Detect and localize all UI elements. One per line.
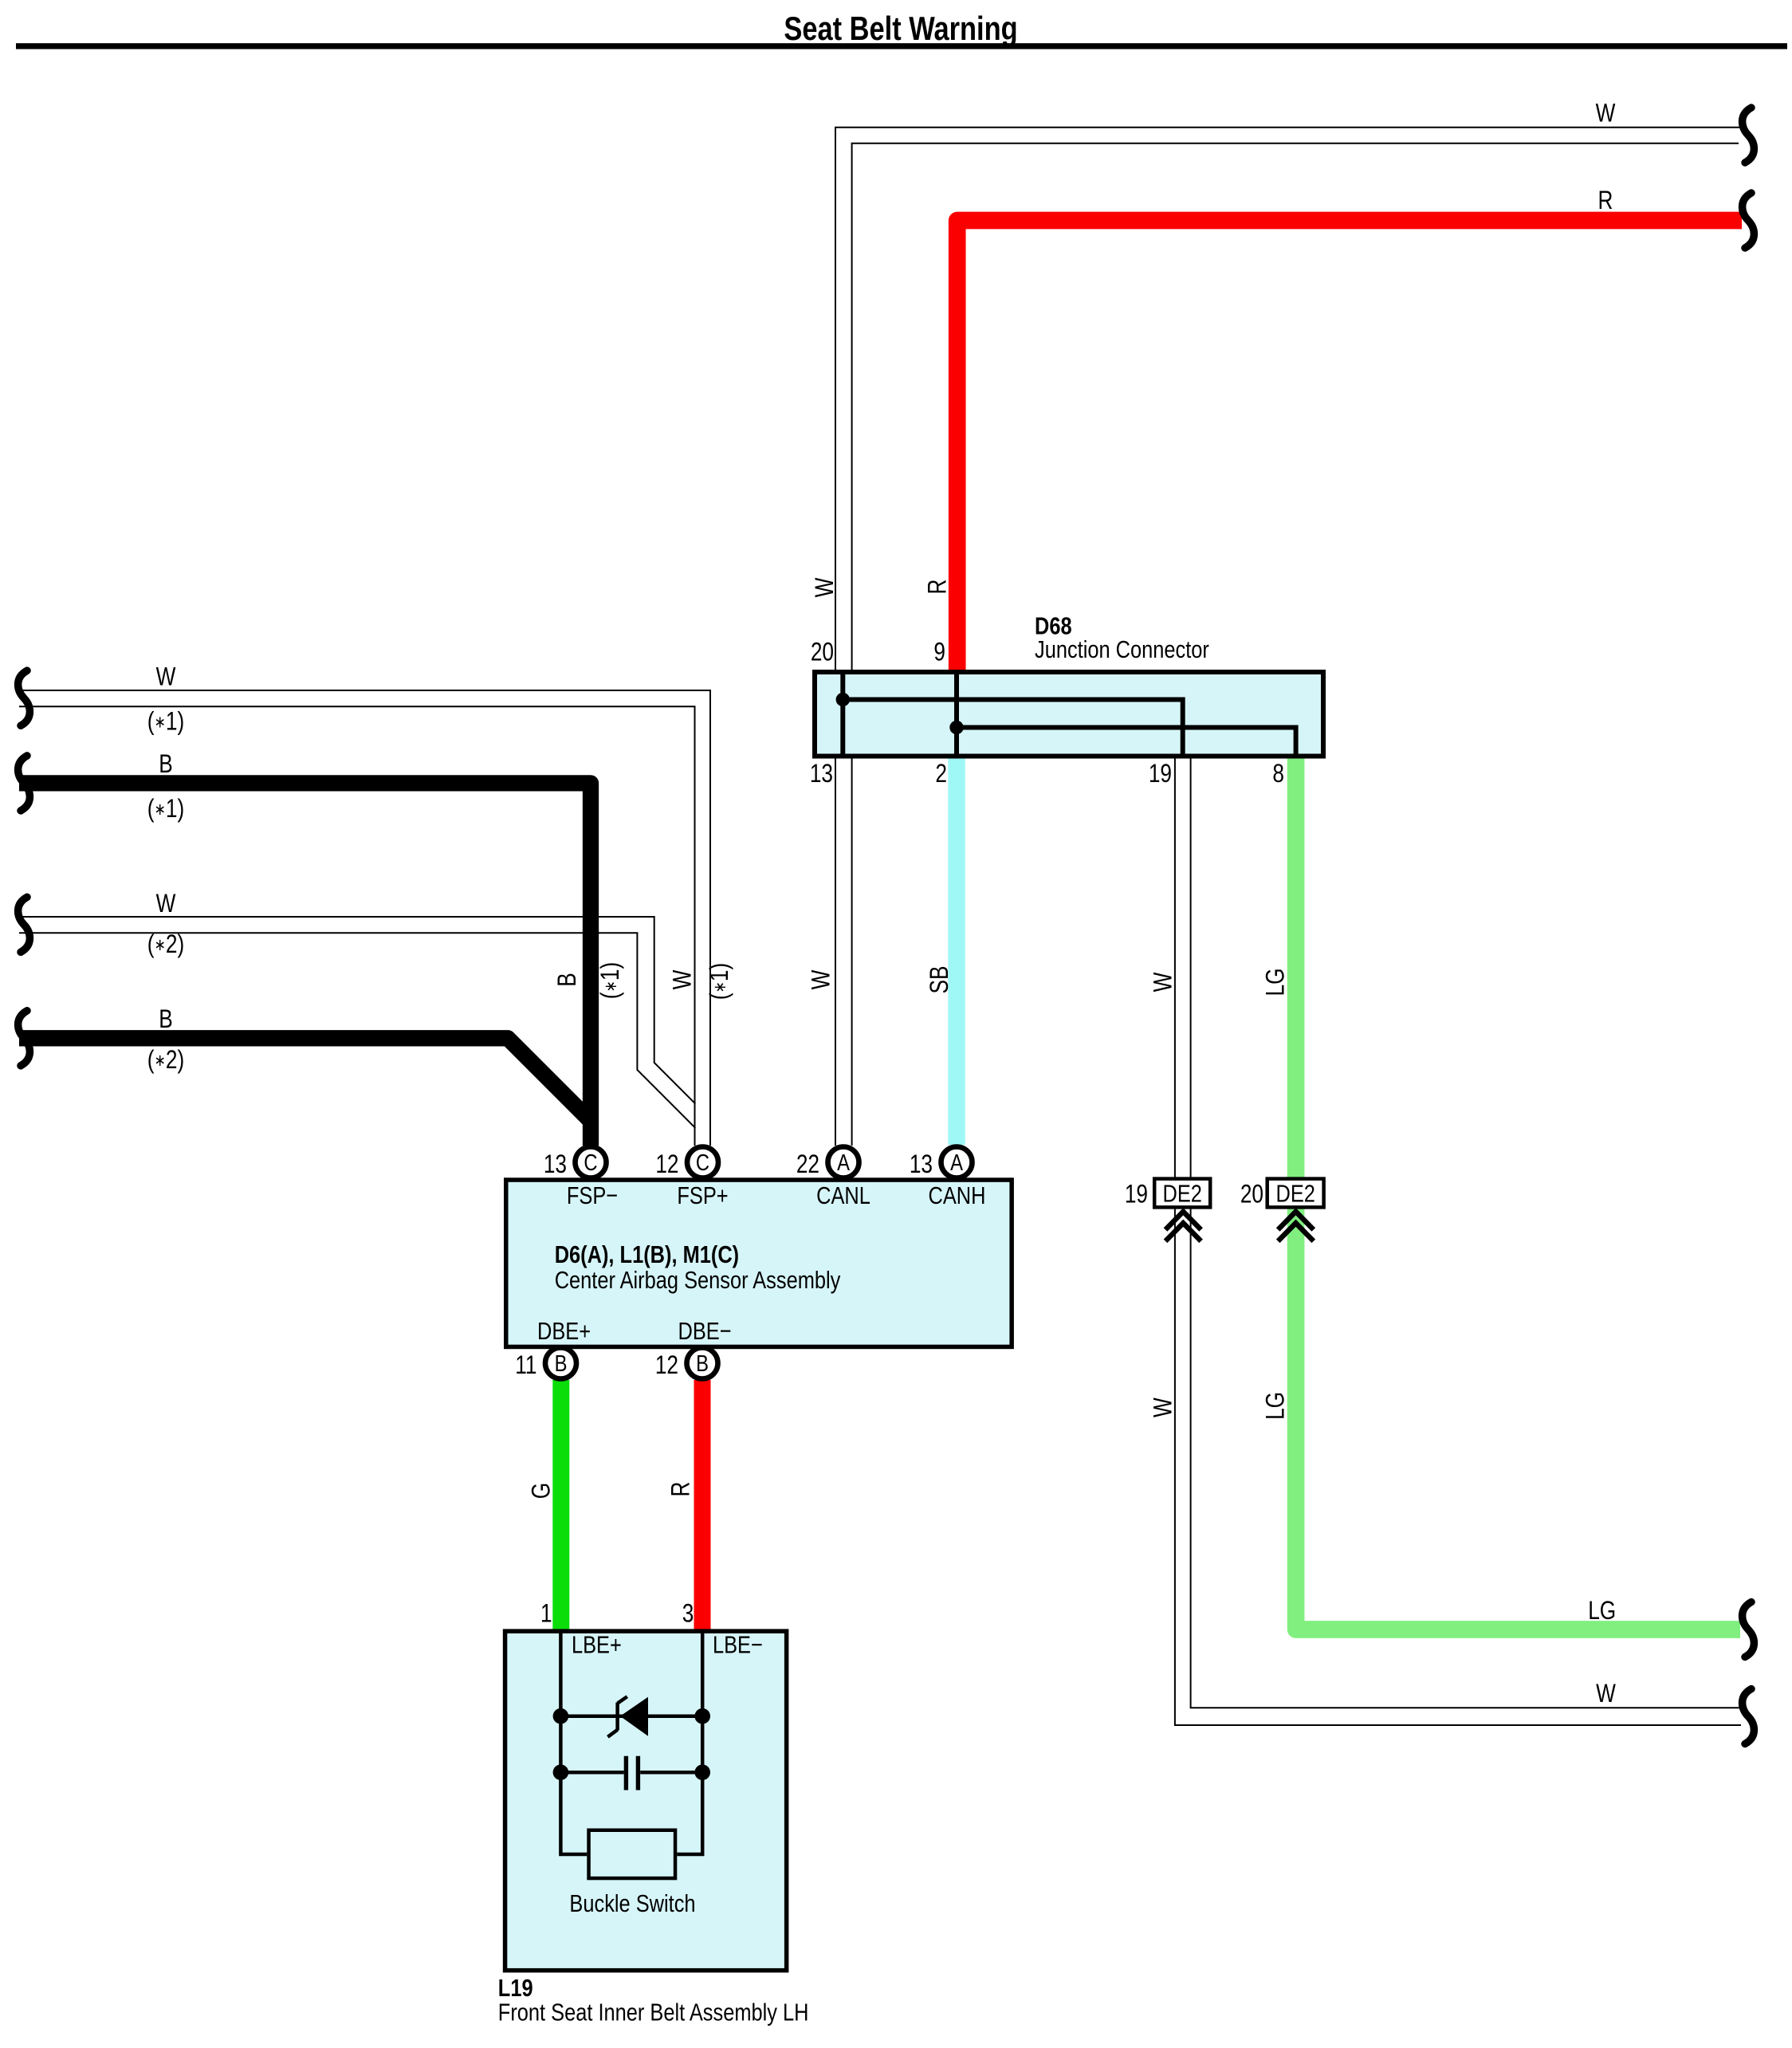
pin number 1 (L19) bbox=[540, 1600, 552, 1628]
svg-text:C: C bbox=[696, 1150, 709, 1176]
front seat inner belt assembly L19 box bbox=[505, 1631, 787, 1970]
svg-text:DBE−: DBE− bbox=[678, 1318, 731, 1346]
off-page squiggle (LG) bbox=[1743, 1602, 1755, 1657]
capacitor C1 plates bbox=[626, 1756, 638, 1791]
pin number 12 (C) bbox=[655, 1151, 678, 1179]
label (*1) under W wire bbox=[147, 708, 184, 736]
svg-text:CANH: CANH bbox=[929, 1182, 986, 1210]
svg-text:13: 13 bbox=[544, 1151, 567, 1179]
L19 internal left rail from pin 1 bbox=[560, 1631, 587, 1854]
label W (*1 wire) bbox=[156, 663, 176, 691]
pin number 13 (D68) bbox=[810, 761, 833, 788]
svg-text:13: 13 bbox=[910, 1151, 933, 1179]
pin 22(A) circle bbox=[828, 1147, 859, 1178]
svg-text:11: 11 bbox=[515, 1352, 536, 1380]
junction connector D68 box bbox=[815, 672, 1323, 757]
svg-text:FSP+: FSP+ bbox=[677, 1182, 728, 1210]
label W (*2 wire) bbox=[156, 890, 176, 918]
D68 internal bus pin 20 to 13 bbox=[840, 672, 845, 757]
svg-text:FSP−: FSP− bbox=[567, 1182, 618, 1210]
title rule bbox=[16, 43, 1787, 49]
rotated label (*1) beside vertical B wire bbox=[597, 962, 625, 999]
wire B left (*2) thick joining pin 13(C) wire bbox=[19, 1038, 593, 1123]
D68 internal bus pin 9 to 2 bbox=[954, 672, 959, 757]
label Buckle Switch bbox=[569, 1890, 695, 1918]
center airbag sensor assembly box D6(A) L1(B) M1(C) bbox=[506, 1180, 1012, 1346]
label W (top right wire) bbox=[1596, 100, 1616, 128]
wire R from pin 12(B) down to L19 pin 3 bbox=[694, 1380, 711, 1631]
svg-text:(∗2): (∗2) bbox=[147, 931, 184, 959]
svg-text:Front Seat Inner Belt Assembly: Front Seat Inner Belt Assembly LH bbox=[498, 1999, 809, 2026]
svg-text:W: W bbox=[808, 969, 835, 989]
junction dot diode left bbox=[553, 1708, 569, 1724]
rotated label SB bbox=[925, 965, 953, 993]
wire B left (*1) thick to pin 13(C) bbox=[19, 783, 591, 1146]
junction dot capacitor left bbox=[553, 1764, 569, 1780]
label CANH bbox=[929, 1182, 986, 1210]
svg-text:20: 20 bbox=[1240, 1181, 1263, 1209]
capacitor row wires bbox=[560, 1771, 702, 1775]
rotated label LG (upper) bbox=[1262, 968, 1290, 996]
svg-text:LG: LG bbox=[1588, 1598, 1616, 1625]
label Junction Connector bbox=[1035, 636, 1209, 664]
svg-text:19: 19 bbox=[1125, 1181, 1148, 1209]
svg-text:19: 19 bbox=[1149, 761, 1172, 788]
svg-text:13: 13 bbox=[810, 761, 833, 788]
pin 13(C) circle bbox=[576, 1147, 607, 1178]
rotated label W (above D68 pin 20) bbox=[812, 577, 839, 597]
label (*2) under B wire bbox=[147, 1047, 184, 1075]
svg-text:20: 20 bbox=[811, 639, 834, 666]
pin number 13 (A) bbox=[910, 1151, 933, 1179]
svg-text:W: W bbox=[156, 890, 176, 918]
rotated label B beside vertical B wire bbox=[554, 973, 582, 987]
label D6(A), L1(B), M1(C) bbox=[555, 1241, 739, 1269]
svg-text:G: G bbox=[528, 1483, 556, 1499]
rotated label G bbox=[528, 1483, 556, 1499]
svg-text:8: 8 bbox=[1272, 761, 1284, 788]
label (*2) under W wire bbox=[147, 931, 184, 959]
wire W from D68 pin 20 up and right to off-page bbox=[835, 128, 1739, 670]
pin number 12 (B) bbox=[655, 1352, 678, 1380]
pin 12(B) circle bbox=[687, 1348, 718, 1379]
label B (*1 wire) bbox=[159, 751, 173, 779]
off-page squiggle (W bottom right) bbox=[1743, 1689, 1755, 1744]
wire W from D68 pin 19 down through DE2 to off-page bottom right bbox=[1175, 759, 1741, 1726]
chevrons below DE2 pin 20 bbox=[1278, 1212, 1314, 1241]
pin number 20 (DE2) bbox=[1240, 1181, 1263, 1209]
svg-text:2: 2 bbox=[935, 761, 947, 788]
D68 junction dot on W bus bbox=[836, 693, 850, 706]
off-page squiggle (W *1) bbox=[18, 670, 30, 725]
svg-text:Center Airbag Sensor Assembly: Center Airbag Sensor Assembly bbox=[555, 1267, 841, 1295]
pin 12(C) circle bbox=[687, 1147, 718, 1178]
svg-text:12: 12 bbox=[655, 1151, 678, 1179]
wire SB from D68 pin 2 down to pin 13(A) CANH bbox=[948, 759, 965, 1146]
svg-text:D6(A), L1(B), M1(C): D6(A), L1(B), M1(C) bbox=[555, 1241, 739, 1269]
off-page squiggle (B *1) bbox=[18, 756, 30, 811]
label FSP+ bbox=[677, 1182, 728, 1210]
svg-text:R: R bbox=[924, 580, 952, 595]
svg-text:B: B bbox=[159, 751, 173, 779]
svg-text:LBE+: LBE+ bbox=[572, 1631, 622, 1659]
label R (top right wire) bbox=[1598, 187, 1613, 215]
svg-text:Junction Connector: Junction Connector bbox=[1035, 636, 1209, 664]
svg-text:R: R bbox=[1598, 187, 1613, 215]
pin 11(B) circle bbox=[545, 1348, 576, 1379]
pin number 19 (DE2) bbox=[1125, 1181, 1148, 1209]
connector DE2 pin 19 bbox=[1154, 1179, 1210, 1209]
svg-text:W: W bbox=[1596, 100, 1616, 128]
rotated label (*1) beside vertical W wire bbox=[706, 963, 734, 1000]
label LG near bottom-right squiggle bbox=[1588, 1598, 1616, 1625]
svg-text:Seat Belt Warning: Seat Belt Warning bbox=[784, 10, 1017, 48]
pin 13(A) circle bbox=[941, 1147, 973, 1178]
svg-text:(∗1): (∗1) bbox=[147, 796, 184, 824]
off-page connector squiggle (R) bbox=[1743, 193, 1755, 248]
D68 junction dot on R bus bbox=[949, 721, 963, 734]
svg-text:LG: LG bbox=[1262, 968, 1290, 996]
label CANL bbox=[816, 1182, 870, 1210]
rotated label LG (lower) bbox=[1262, 1392, 1290, 1420]
pin number 9 (D68) bbox=[933, 639, 945, 666]
svg-text:W: W bbox=[1149, 972, 1177, 992]
svg-text:LBE−: LBE− bbox=[713, 1631, 763, 1659]
svg-text:9: 9 bbox=[933, 639, 945, 666]
title Seat Belt Warning bbox=[784, 10, 1017, 48]
D68 internal branch to pin 8 bbox=[957, 728, 1296, 757]
pin number 3 (L19) bbox=[682, 1600, 694, 1628]
svg-text:(∗1): (∗1) bbox=[706, 963, 734, 1000]
rotated label W (CANL wire) bbox=[808, 969, 835, 989]
wire R from D68 pin 9 up and right to off-page bbox=[957, 221, 1742, 670]
off-page squiggle (B *2) bbox=[18, 1011, 30, 1066]
rotated label W beside vertical W wire to 12(C) bbox=[669, 969, 697, 989]
wire W from D68 pin 13 down to pin 22(A) CANL bbox=[835, 759, 852, 1146]
label W near bottom-right squiggle bbox=[1596, 1680, 1616, 1708]
svg-text:22: 22 bbox=[796, 1151, 819, 1179]
svg-text:3: 3 bbox=[682, 1600, 694, 1628]
pin number 2 (D68) bbox=[935, 761, 947, 788]
pin number 19 (D68) bbox=[1149, 761, 1172, 788]
svg-text:LG: LG bbox=[1262, 1392, 1290, 1420]
pin number 13 (C) bbox=[544, 1151, 567, 1179]
svg-text:DBE+: DBE+ bbox=[537, 1318, 591, 1346]
svg-text:Buckle Switch: Buckle Switch bbox=[569, 1890, 695, 1918]
svg-text:C: C bbox=[584, 1150, 597, 1176]
buckle switch box bbox=[589, 1830, 676, 1878]
rotated label R (above D68 pin 9) bbox=[924, 580, 952, 595]
off-page squiggle (W *2) bbox=[18, 897, 30, 952]
svg-text:B: B bbox=[696, 1350, 709, 1377]
svg-text:(∗1): (∗1) bbox=[597, 962, 625, 999]
label LBE+ bbox=[572, 1631, 622, 1659]
wire G from pin 11(B) down to L19 pin 1 bbox=[552, 1380, 569, 1631]
label Center Airbag Sensor Assembly bbox=[555, 1267, 841, 1295]
svg-text:SB: SB bbox=[925, 965, 953, 993]
rotated label R (lower) bbox=[667, 1482, 695, 1497]
label FSP- bbox=[567, 1182, 618, 1210]
svg-text:W: W bbox=[156, 663, 176, 691]
wire W left (*2) joining pin 12(C) wire bbox=[19, 917, 695, 1128]
svg-text:B: B bbox=[555, 1350, 568, 1377]
label DBE+ bbox=[537, 1318, 591, 1346]
junction dot capacitor right bbox=[694, 1764, 710, 1780]
svg-text:(∗2): (∗2) bbox=[147, 1047, 184, 1075]
svg-text:1: 1 bbox=[540, 1600, 552, 1628]
wire W left (*1) from off-page to pin 12(C) bbox=[19, 690, 710, 1146]
rotated label W (pin 19 wire lower) bbox=[1149, 1397, 1177, 1417]
rotated label W (pin 19 wire upper) bbox=[1149, 972, 1177, 992]
svg-text:A: A bbox=[950, 1150, 963, 1176]
pin number 8 (D68) bbox=[1272, 761, 1284, 788]
svg-text:CANL: CANL bbox=[816, 1182, 870, 1210]
pin number 22 (A) bbox=[796, 1151, 819, 1179]
svg-text:DE2: DE2 bbox=[1162, 1180, 1201, 1208]
svg-text:W: W bbox=[669, 969, 697, 989]
D68 internal branch to pin 19 bbox=[843, 700, 1182, 757]
label (*1) under B wire bbox=[147, 796, 184, 824]
connector DE2 pin 20 bbox=[1267, 1179, 1324, 1209]
L19 internal right rail from pin 3 bbox=[677, 1631, 702, 1854]
label D68 bbox=[1035, 612, 1072, 640]
label Front Seat Inner Belt Assembly LH bbox=[498, 1999, 809, 2026]
svg-text:R: R bbox=[667, 1482, 695, 1497]
label DBE- bbox=[678, 1318, 731, 1346]
svg-text:12: 12 bbox=[655, 1352, 678, 1380]
label LBE- bbox=[713, 1631, 763, 1659]
off-page connector squiggle (W top right) bbox=[1743, 108, 1755, 163]
wire LG from D68 pin 8 down through DE2 to off-page bottom right bbox=[1296, 759, 1740, 1630]
label L19 bbox=[498, 1975, 533, 2003]
svg-text:A: A bbox=[837, 1150, 850, 1176]
svg-text:DE2: DE2 bbox=[1275, 1180, 1315, 1208]
svg-text:B: B bbox=[554, 973, 582, 987]
chevrons below DE2 pin 19 bbox=[1165, 1212, 1201, 1241]
svg-text:(∗1): (∗1) bbox=[147, 708, 184, 736]
label B (*2 wire) bbox=[159, 1006, 173, 1034]
zener diode D1 bbox=[607, 1696, 648, 1737]
pin number 11 (B) bbox=[515, 1352, 536, 1380]
svg-text:W: W bbox=[812, 577, 839, 597]
junction dot diode right bbox=[694, 1708, 710, 1724]
zener diode row wire bbox=[560, 1714, 702, 1718]
pin number 20 (D68) bbox=[811, 639, 834, 666]
svg-text:B: B bbox=[159, 1006, 173, 1034]
svg-text:W: W bbox=[1149, 1397, 1177, 1417]
svg-text:W: W bbox=[1596, 1680, 1616, 1708]
